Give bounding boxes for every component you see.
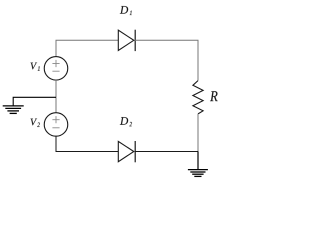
- wire V1 minus to V2 plus: [55, 80, 57, 113]
- ground (left): [3, 106, 24, 114]
- resistor R: [193, 81, 203, 114]
- voltage source V2: [44, 113, 68, 137]
- wire R to output node: [197, 114, 199, 152]
- V2 polarity +: [52, 116, 59, 123]
- wire D2 cathode to output node: [135, 151, 198, 153]
- label D1: [120, 6, 132, 15]
- wire to left ground: [13, 97, 56, 106]
- V1 polarity +: [52, 60, 59, 67]
- label V1: [31, 63, 40, 71]
- V1 polarity -: [52, 70, 59, 72]
- diode D2: [118, 141, 135, 162]
- V2 polarity -: [52, 127, 59, 129]
- label D2: [120, 117, 132, 126]
- diode D1: [118, 30, 135, 51]
- wire output node to right ground: [197, 152, 199, 170]
- label R: [210, 91, 218, 101]
- wire V2 bottom to D2 anode: [56, 136, 118, 152]
- label V2: [31, 119, 40, 127]
- wire V1 top to D1 anode: [56, 40, 118, 56]
- wire D1 cathode to resistor R: [135, 40, 198, 80]
- ground (right): [188, 170, 208, 177]
- voltage source V1: [44, 57, 68, 81]
